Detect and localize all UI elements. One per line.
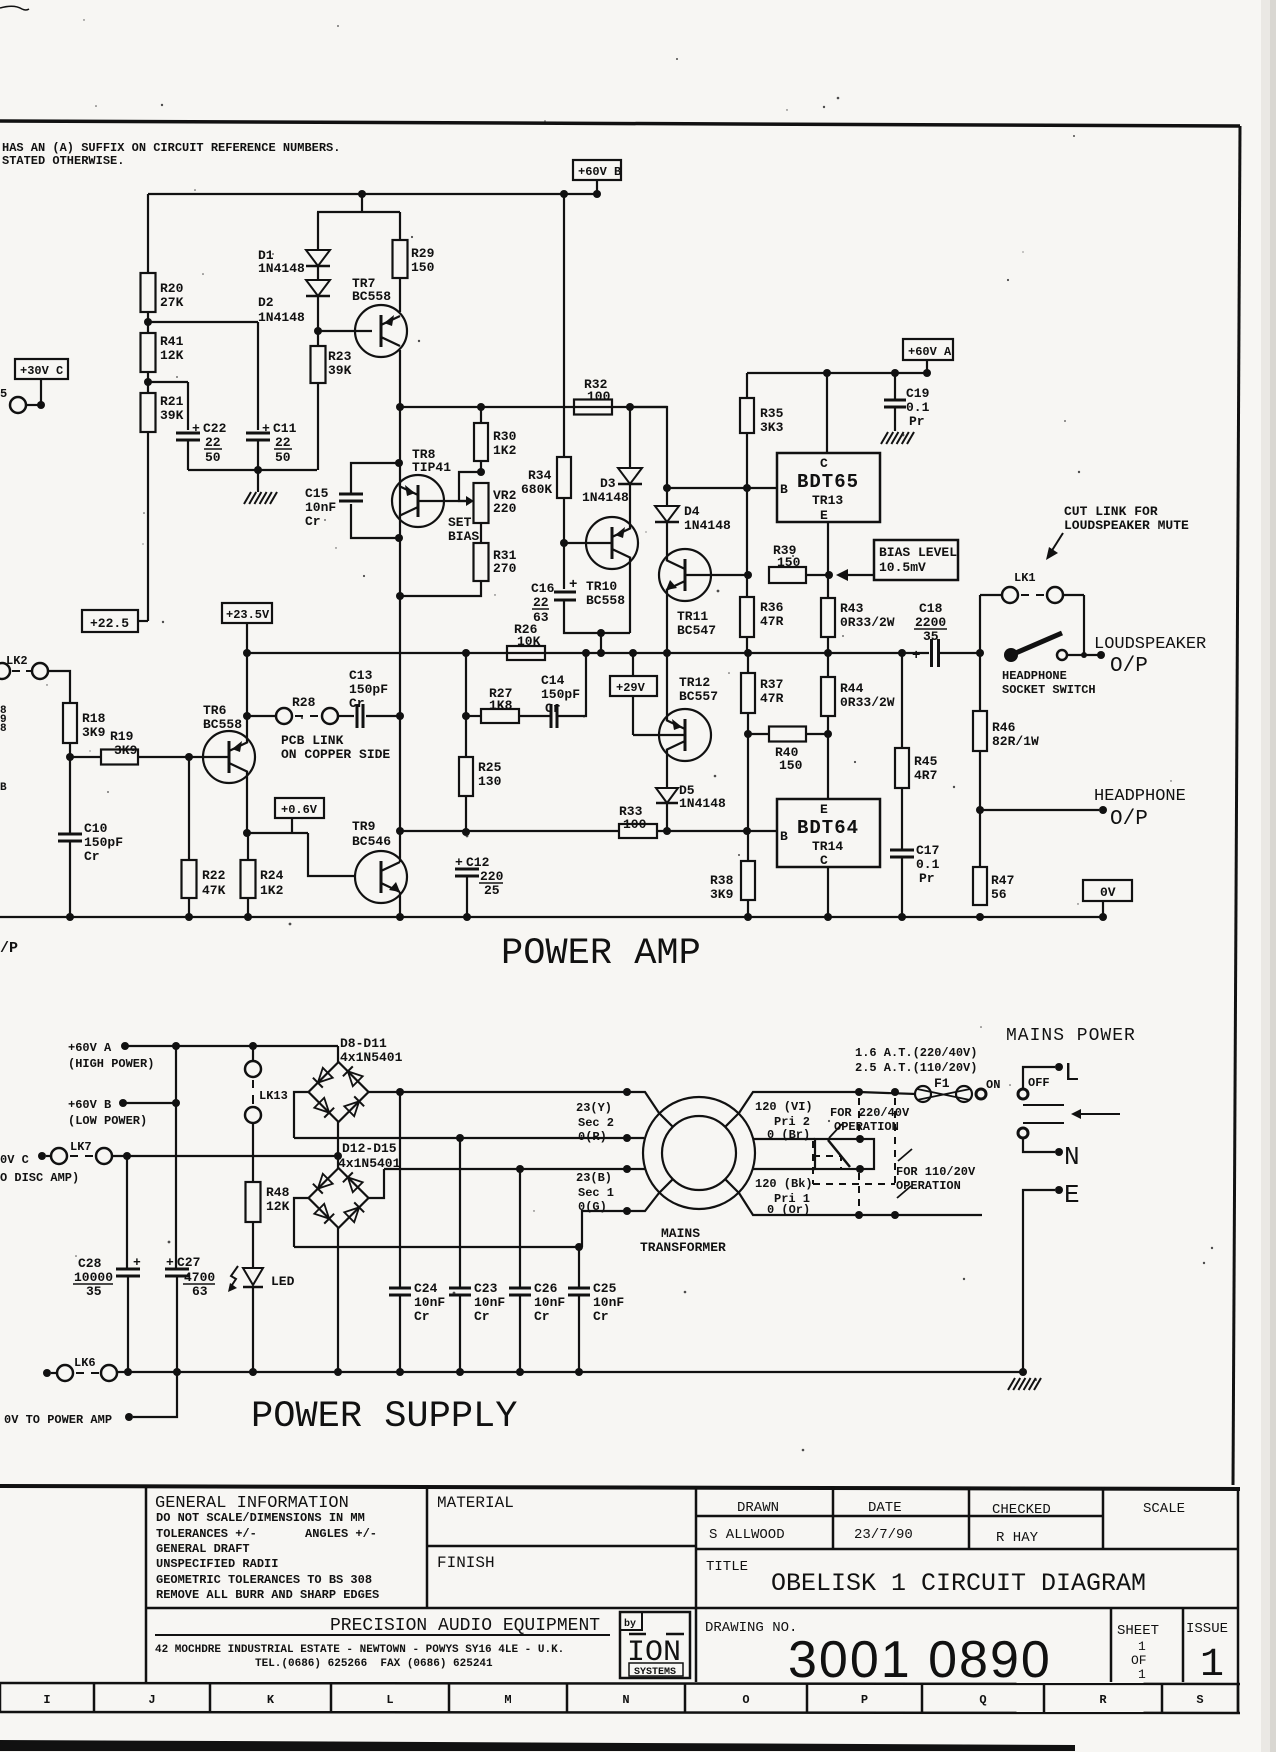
wire loop drop to node B <box>600 633 602 653</box>
svg-text:10nF: 10nF <box>593 1295 624 1310</box>
wire C16 to loop bottom <box>564 600 630 633</box>
svg-text:270: 270 <box>493 561 517 576</box>
svg-text:C24: C24 <box>414 1281 438 1296</box>
svg-text:PCB LINK: PCB LINK <box>281 733 344 748</box>
svg-text:BC558: BC558 <box>203 717 242 732</box>
svg-text:/P: /P <box>0 940 18 957</box>
svg-text:C10: C10 <box>84 821 108 836</box>
selector blade <box>828 1140 850 1167</box>
arrow bias to node <box>845 574 874 576</box>
svg-text:OF: OF <box>1131 1653 1147 1668</box>
resistor R44 <box>827 653 829 677</box>
wire TR11 emitter to node B <box>666 590 668 653</box>
wire +60V B feed <box>123 1102 176 1104</box>
svg-text:UNSPECIFIED RADII: UNSPECIFIED RADII <box>156 1557 278 1571</box>
wire R30 to VR2 junction <box>480 461 482 472</box>
scanner black bottom edge <box>0 1740 1075 1751</box>
svg-text:B: B <box>780 482 788 497</box>
resistor R22 <box>182 860 197 898</box>
transformer primary connections <box>739 1092 859 1113</box>
svg-text:10nF: 10nF <box>474 1295 505 1310</box>
svg-text:3001 0890: 3001 0890 <box>788 1631 1052 1689</box>
svg-text:150: 150 <box>777 555 801 570</box>
ground mains earth <box>1008 1378 1015 1390</box>
svg-text:25: 25 <box>484 883 500 898</box>
wire bridge2 right corner to sec1 23B <box>369 1169 385 1198</box>
wire R36 column <box>746 488 748 575</box>
svg-text:O/P: O/P <box>1110 655 1148 678</box>
wire top stub to diode chain <box>361 194 363 212</box>
wire node A corner to D4 <box>630 407 667 488</box>
svg-text:0(R): 0(R) <box>578 1130 607 1144</box>
power block BDT65 TR13 <box>777 453 880 522</box>
svg-text:0V: 0V <box>1100 885 1116 900</box>
svg-text:+: + <box>912 648 920 664</box>
resistor R29 <box>399 212 401 240</box>
svg-text:N: N <box>1064 1142 1080 1172</box>
svg-text:MAINS: MAINS <box>661 1226 700 1241</box>
svg-text:C22: C22 <box>203 421 227 436</box>
svg-text:STATED OTHERWISE.: STATED OTHERWISE. <box>2 154 124 168</box>
svg-text:R29: R29 <box>411 246 435 261</box>
svg-text:C19: C19 <box>906 386 930 401</box>
svg-text:+30V C: +30V C <box>20 364 63 378</box>
resistor R37 <box>747 653 749 673</box>
svg-text:10nF: 10nF <box>414 1295 445 1310</box>
svg-text:+: + <box>569 577 577 593</box>
svg-text:TOLERANCES +/-: TOLERANCES +/- <box>156 1527 257 1541</box>
capacitor C10 <box>69 757 71 834</box>
svg-text:FOR 110/20V: FOR 110/20V <box>896 1165 976 1179</box>
node C wire y=832 <box>400 830 619 832</box>
capacitor C17 <box>901 788 903 850</box>
wire R31 bottom to rail <box>400 581 481 596</box>
svg-text:S ALLWOOD: S ALLWOOD <box>709 1527 785 1543</box>
wire C18 to switch node <box>939 652 980 654</box>
svg-text:TR12: TR12 <box>679 675 710 690</box>
svg-text:+60V B: +60V B <box>578 165 621 179</box>
svg-text:R18: R18 <box>82 711 106 726</box>
svg-text:ON: ON <box>986 1078 1000 1092</box>
wire BDT65 base <box>667 487 777 489</box>
svg-text:E: E <box>820 508 828 523</box>
resistor R19 <box>101 750 138 765</box>
wire bridge1 right corner to sec2 23Y <box>369 1091 628 1093</box>
svg-text:4R7: 4R7 <box>914 768 937 783</box>
svg-text:23(Y): 23(Y) <box>576 1101 612 1115</box>
svg-text:LED: LED <box>271 1274 295 1289</box>
capacitor C16 branch <box>563 543 565 589</box>
svg-text:R47: R47 <box>991 873 1014 888</box>
wire earth to ground <box>1023 1190 1055 1372</box>
svg-text:R36: R36 <box>760 600 784 615</box>
wire R35 bottom to base line <box>746 433 748 488</box>
wire +0.6V stem and TR9 base <box>291 818 293 833</box>
svg-text:22: 22 <box>205 435 221 450</box>
wire headphone column <box>979 653 981 711</box>
wire bridge1 left corner jog to sec2 0R <box>294 1092 309 1138</box>
wire branch to C22 <box>148 381 188 383</box>
diode D3 <box>629 407 631 468</box>
svg-text:0.1: 0.1 <box>906 400 930 415</box>
transistor TR7 <box>355 305 407 357</box>
svg-text:SHEET: SHEET <box>1117 1623 1159 1639</box>
svg-text:HEADPHONE: HEADPHONE <box>1002 669 1067 683</box>
node A wire y=407 <box>400 406 667 408</box>
wire TR7 base <box>318 330 372 332</box>
svg-text:3K9: 3K9 <box>82 725 106 740</box>
svg-text:R24: R24 <box>260 868 284 883</box>
selector dashed links <box>858 1098 860 1135</box>
svg-text:FINISH: FINISH <box>437 1554 495 1572</box>
svg-text:REMOVE ALL BURR AND SHARP EDGE: REMOVE ALL BURR AND SHARP EDGES <box>156 1588 379 1602</box>
wire R37 bottom / R40 / R38 column <box>747 713 749 831</box>
wire R48 to LED <box>252 1222 254 1268</box>
svg-text:0 (Br): 0 (Br) <box>767 1128 810 1142</box>
power flag +60V A rail <box>747 372 927 374</box>
svg-text:+60V B: +60V B <box>68 1098 111 1112</box>
node 0V bottom rail <box>0 916 1103 918</box>
svg-text:R43: R43 <box>840 601 864 616</box>
mains transformer <box>643 1097 755 1209</box>
wire TR12 collector to D5 <box>666 750 668 788</box>
resistor R39 <box>769 567 806 583</box>
svg-text:12K: 12K <box>160 348 184 363</box>
svg-text:+: + <box>192 421 200 436</box>
resistor R41 <box>141 333 156 372</box>
svg-text:120 (Bk): 120 (Bk) <box>755 1177 813 1191</box>
wire R25 to C12 <box>465 796 467 832</box>
svg-text:0V C: 0V C <box>0 1153 29 1167</box>
title block verticals <box>145 1487 148 1682</box>
svg-text:SET: SET <box>448 515 472 530</box>
svg-text:0R33/2W: 0R33/2W <box>840 615 895 630</box>
svg-text:LK13: LK13 <box>259 1089 288 1103</box>
svg-text:+: + <box>455 855 463 870</box>
svg-text:3K3: 3K3 <box>760 420 784 435</box>
svg-text:63: 63 <box>192 1284 208 1299</box>
wire C14 up to node B <box>557 653 586 716</box>
svg-text:O: O <box>742 1693 749 1707</box>
svg-text:OPERATION: OPERATION <box>834 1120 899 1134</box>
diode D4 <box>666 488 668 506</box>
svg-text:120 (VI): 120 (VI) <box>755 1100 813 1114</box>
svg-text:C17: C17 <box>916 843 939 858</box>
svg-text:0V TO POWER AMP: 0V TO POWER AMP <box>4 1413 112 1427</box>
wire +60V B column x=564 <box>563 194 565 457</box>
svg-text:ANGLES +/-: ANGLES +/- <box>305 1527 377 1541</box>
power flag +30V C <box>15 359 68 379</box>
resistor R48 <box>246 1182 261 1222</box>
wire x=466 column from node B <box>465 653 467 757</box>
svg-text:TITLE: TITLE <box>706 1559 748 1575</box>
svg-text:C12: C12 <box>466 855 490 870</box>
svg-text:1N4148: 1N4148 <box>258 261 305 276</box>
svg-text:39K: 39K <box>160 408 184 423</box>
svg-text:8: 8 <box>0 723 7 735</box>
svg-text:BC546: BC546 <box>352 834 391 849</box>
transistor TR9 <box>355 851 407 903</box>
svg-text:LK1: LK1 <box>1014 571 1036 585</box>
svg-text:TIP41: TIP41 <box>412 460 451 475</box>
wire TR7 emitter to node A rail <box>399 350 401 407</box>
svg-text:Cr: Cr <box>534 1309 550 1324</box>
diode D5 <box>656 788 678 803</box>
svg-text:47K: 47K <box>202 883 226 898</box>
power flag 0V <box>1083 880 1132 901</box>
svg-text:DRAWN: DRAWN <box>737 1500 779 1516</box>
svg-text:R37: R37 <box>760 677 783 692</box>
svg-text:R: R <box>1099 1693 1107 1707</box>
diode D2 <box>306 280 330 296</box>
svg-text:M: M <box>504 1693 511 1707</box>
resistor R20 <box>141 273 156 312</box>
svg-text:LK7: LK7 <box>70 1140 92 1154</box>
svg-text:R21: R21 <box>160 394 184 409</box>
svg-text:L: L <box>386 1693 393 1707</box>
capacitor C13 <box>356 704 359 728</box>
resistor R33 <box>619 824 657 838</box>
wire rail down to +22.5 tap <box>147 432 149 621</box>
svg-text:23/7/90: 23/7/90 <box>854 1527 913 1543</box>
svg-text:220: 220 <box>480 869 504 884</box>
svg-text:1K8: 1K8 <box>489 698 513 713</box>
ground below C11/C22 <box>257 470 259 492</box>
svg-text:2.5 A.T.(110/20V): 2.5 A.T.(110/20V) <box>855 1061 977 1075</box>
capacitor C15 loop <box>351 463 399 494</box>
svg-text:C15: C15 <box>305 486 329 501</box>
svg-text:O/P: O/P <box>1110 808 1148 831</box>
headphone socket switch <box>1004 648 1018 662</box>
diode D1 <box>306 250 330 266</box>
svg-text:C27: C27 <box>177 1255 200 1270</box>
transistor TR10 <box>586 517 638 569</box>
svg-text:+: + <box>166 1255 174 1270</box>
svg-text:B: B <box>780 829 788 844</box>
wire C28 column <box>126 1156 128 1269</box>
svg-text:BIAS LEVEL: BIAS LEVEL <box>879 545 957 560</box>
svg-text:Cr: Cr <box>84 849 100 864</box>
resistor R47 <box>973 867 987 905</box>
voltage label +22.5 <box>82 610 138 632</box>
svg-text:1K2: 1K2 <box>493 443 517 458</box>
drawing frame top border <box>0 121 1240 126</box>
wire R44 to BDT64 emitter <box>827 716 829 799</box>
svg-text:BC558: BC558 <box>352 289 391 304</box>
resistor R26 <box>507 646 545 660</box>
LED <box>243 1268 263 1285</box>
capacitor C11 <box>246 432 270 435</box>
transistor TR8 <box>392 475 444 527</box>
svg-text:D2: D2 <box>258 295 274 310</box>
wire bridge2 left corner to sec1 0G loop <box>294 1198 309 1247</box>
sheet cell <box>1110 1608 1113 1682</box>
svg-text:P: P <box>861 1693 868 1707</box>
scan speckles <box>411 236 413 238</box>
voltage label +0.6V <box>275 798 324 818</box>
svg-text:TR9: TR9 <box>352 819 376 834</box>
svg-text:10K: 10K <box>517 634 541 649</box>
wire LK2 to R18 <box>48 671 70 703</box>
svg-text:POWER AMP: POWER AMP <box>501 933 701 975</box>
transistor TR12 <box>659 709 711 761</box>
link LK13 <box>252 1046 254 1061</box>
svg-text:+22.5: +22.5 <box>90 616 129 631</box>
svg-text:27K: 27K <box>160 295 184 310</box>
wire left rail x=148 <box>147 194 149 273</box>
voltage label +23.5V <box>222 603 272 623</box>
svg-text:TR14: TR14 <box>812 839 843 854</box>
capacitor C12 <box>455 868 479 871</box>
svg-text:TR13: TR13 <box>812 493 843 508</box>
svg-text:K: K <box>267 1693 275 1707</box>
svg-text:TR10: TR10 <box>586 579 617 594</box>
svg-text:47R: 47R <box>760 614 784 629</box>
svg-text:GEOMETRIC TOLERANCES TO BS 308: GEOMETRIC TOLERANCES TO BS 308 <box>156 1573 372 1587</box>
svg-text:12K: 12K <box>266 1199 290 1214</box>
svg-text:39K: 39K <box>328 363 352 378</box>
svg-text:F1: F1 <box>934 1076 950 1091</box>
resistor R23 <box>317 331 319 346</box>
title block top border <box>0 1486 1240 1489</box>
wire TR6 collector down <box>246 772 248 833</box>
wire TR6 base line <box>70 756 101 758</box>
transistor TR11 <box>659 549 711 601</box>
svg-text:C16: C16 <box>531 581 555 596</box>
svg-text:R20: R20 <box>160 281 184 296</box>
svg-text:0.1: 0.1 <box>916 857 940 872</box>
svg-text:150: 150 <box>779 758 803 773</box>
svg-text:Pr: Pr <box>919 871 935 886</box>
svg-text:1: 1 <box>1138 1667 1146 1682</box>
wire TR9 collector <box>399 831 401 862</box>
svg-text:1: 1 <box>1138 1639 1146 1654</box>
wire D5 to R33 line <box>666 803 668 832</box>
svg-text:+: + <box>133 1255 141 1270</box>
svg-text:LOUDSPEAKER: LOUDSPEAKER <box>1094 635 1206 654</box>
snubber capacitor C26 <box>509 1287 531 1290</box>
svg-text:1N4148: 1N4148 <box>679 796 726 811</box>
svg-text:GENERAL DRAFT: GENERAL DRAFT <box>156 1542 250 1556</box>
resistor R35 <box>740 398 754 433</box>
svg-text:50: 50 <box>205 450 221 465</box>
svg-text:TEL.(0686) 625266 FAX (0686): TEL.(0686) 625266 FAX (0686) 625241 <box>255 1658 493 1670</box>
svg-text:R28: R28 <box>292 695 316 710</box>
svg-text:10.5mV: 10.5mV <box>879 560 926 575</box>
transistor TR6 <box>203 731 255 783</box>
svg-text:130: 130 <box>478 774 502 789</box>
svg-text:E: E <box>1064 1180 1080 1210</box>
svg-text:ON COPPER SIDE: ON COPPER SIDE <box>281 747 390 762</box>
resistor R31 <box>480 523 482 543</box>
wire TR10 base <box>564 542 612 544</box>
svg-text:50: 50 <box>275 450 291 465</box>
resistor R18 <box>63 703 77 743</box>
wire D2 cathode to TR7 base node <box>317 296 319 331</box>
capacitor C19 <box>894 373 896 400</box>
svg-text:+23.5V: +23.5V <box>226 608 270 622</box>
svg-text:1: 1 <box>1200 1643 1224 1688</box>
wire bridge2 bottom to 0V rail <box>337 1228 339 1372</box>
svg-text:42 MOCHDRE INDUSTRIAL ESTATE -: 42 MOCHDRE INDUSTRIAL ESTATE - NEWTOWN -… <box>155 1644 564 1656</box>
svg-text:SCALE: SCALE <box>1143 1501 1185 1517</box>
svg-text:FOR 220/40V: FOR 220/40V <box>830 1106 910 1120</box>
svg-text:Cr: Cr <box>545 701 561 716</box>
wire R34 to TR10 base <box>563 498 565 543</box>
svg-text:5: 5 <box>0 387 7 401</box>
ION systems logo <box>620 1612 690 1678</box>
svg-text:Cr: Cr <box>474 1309 490 1324</box>
svg-text:B: B <box>0 782 7 794</box>
svg-text:R45: R45 <box>914 754 938 769</box>
svg-text:R35: R35 <box>760 406 784 421</box>
scanner grey right margin <box>1261 0 1270 1752</box>
svg-text:0R33/2W: 0R33/2W <box>840 695 895 710</box>
wire R35 top to +60V A rail <box>746 373 748 398</box>
wire bridge1 bottom to LK7 node and bridge2 <box>337 1122 339 1168</box>
wire branch to C11 <box>148 321 258 323</box>
wire C13 to rail <box>366 715 400 717</box>
issue cell <box>1182 1608 1185 1682</box>
resistor R45 <box>901 653 903 748</box>
svg-text:DRAWING NO.: DRAWING NO. <box>705 1620 797 1636</box>
resistor R24 <box>247 833 249 860</box>
pointer lines <box>829 1124 842 1138</box>
svg-text:10000: 10000 <box>74 1270 113 1285</box>
capacitor C22 <box>176 432 200 435</box>
svg-text:Cr: Cr <box>305 514 321 529</box>
svg-text:TR6: TR6 <box>203 703 227 718</box>
svg-text:OPERATION: OPERATION <box>896 1179 961 1193</box>
svg-text:C23: C23 <box>474 1281 498 1296</box>
svg-text:4x1N5401: 4x1N5401 <box>340 1050 403 1065</box>
resistor R38 <box>747 831 749 861</box>
svg-text:CUT LINK FOR: CUT LINK FOR <box>1064 504 1158 519</box>
svg-text:E: E <box>820 802 828 817</box>
svg-text:C26: C26 <box>534 1281 558 1296</box>
svg-text:S: S <box>1196 1693 1203 1707</box>
svg-text:+60V A: +60V A <box>68 1041 112 1055</box>
svg-text:R34: R34 <box>528 468 552 483</box>
svg-text:0 (Or): 0 (Or) <box>767 1203 810 1217</box>
wire bottom link y=470 <box>188 469 317 471</box>
voltage selector solid link box <box>815 1139 874 1169</box>
svg-text:Sec 1: Sec 1 <box>578 1186 614 1200</box>
svg-text:4700: 4700 <box>184 1270 215 1285</box>
svg-text:22: 22 <box>275 435 291 450</box>
svg-text:1N4148: 1N4148 <box>258 310 305 325</box>
wire BDT65 collector <box>826 373 828 453</box>
svg-text:C25: C25 <box>593 1281 617 1296</box>
svg-text:J: J <box>148 1693 155 1707</box>
svg-text:0(G): 0(G) <box>578 1200 607 1214</box>
svg-text:3K9: 3K9 <box>710 887 734 902</box>
svg-text:63: 63 <box>533 610 549 625</box>
capacitor C28 <box>116 1268 140 1271</box>
resistor R27 and capacitor C14 branch <box>466 715 481 717</box>
reference ruler row <box>0 1683 1240 1684</box>
wire to C13 <box>338 715 354 717</box>
wire TR8 base to VR2 wiper <box>418 500 468 502</box>
svg-text:3K9: 3K9 <box>114 743 138 758</box>
svg-text:C: C <box>820 853 828 868</box>
svg-text:1N4148: 1N4148 <box>684 518 731 533</box>
wire TR6 emitter up to node B <box>246 653 248 742</box>
svg-text:680K: 680K <box>521 482 552 497</box>
wire R22 column <box>188 757 190 860</box>
svg-text:SYSTEMS: SYSTEMS <box>634 1667 676 1678</box>
svg-text:D8-D11: D8-D11 <box>340 1036 387 1051</box>
